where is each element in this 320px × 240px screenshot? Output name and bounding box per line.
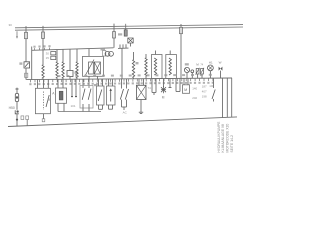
svg-text:M: M (184, 88, 187, 92)
svg-text:W: W (219, 60, 222, 64)
fuse F2 (42, 32, 45, 38)
label 100 (209, 84, 214, 88)
label A (52, 92, 55, 96)
wire drop c1 (56, 50, 58, 62)
wire B1-rail (191, 73, 193, 79)
snowflake (161, 86, 166, 93)
label S2 (48, 99, 50, 101)
wire S6 u (122, 100, 127, 111)
connector X4 (15, 110, 19, 114)
label W2 (219, 60, 222, 64)
switch S2 blade (46, 95, 49, 107)
svg-text:198: 198 (202, 95, 207, 99)
fuse F1 (25, 32, 28, 38)
plug X3 (128, 38, 133, 43)
label 407 (202, 90, 207, 94)
label M snow (162, 96, 165, 100)
ground R1 (139, 112, 143, 113)
wire K6-rail (133, 78, 135, 79)
switch box S2 (35, 88, 50, 113)
svg-text:407: 407 (202, 90, 207, 94)
svg-text:H1: H1 (209, 60, 213, 64)
fuse F5 (180, 27, 183, 33)
fuse F6 (15, 94, 18, 102)
switch S1 box (24, 62, 30, 68)
label M1 (101, 48, 106, 51)
wire snow (163, 79, 165, 88)
switch box S5 (107, 86, 116, 105)
sensor B1 (191, 70, 194, 73)
wire S3 t1 (82, 79, 84, 85)
svg-text:H50: H50 (9, 106, 15, 110)
label 187 (202, 85, 207, 89)
wire M2 t2 (187, 78, 189, 85)
wire A u (58, 103, 64, 111)
label K6 (136, 62, 139, 64)
wire c2-rail (62, 78, 64, 79)
motor M1 (103, 51, 114, 57)
wire E2-rail (209, 71, 211, 78)
stub T1 (169, 79, 172, 88)
wire drop long (121, 48, 123, 78)
wire bus30 line1 (15, 25, 243, 28)
wire drop c2 (62, 49, 64, 62)
wire R1 gnd (140, 100, 142, 113)
wire S5 u (109, 105, 113, 109)
fuse F3 (113, 32, 116, 38)
svg-text:SEITE 14-2: SEITE 14-2 (230, 135, 234, 153)
lamp E2 (208, 65, 214, 71)
svg-text:187: 187 (202, 85, 207, 89)
motor M2 box (183, 85, 190, 94)
svg-text:KLIMAANLAGE 98: KLIMAANLAGE 98 (221, 124, 225, 152)
wire S5 t2 (112, 79, 114, 86)
wire collector (58, 111, 101, 113)
label K4 (75, 72, 78, 74)
svg-text:101: 101 (71, 104, 76, 108)
switch S2 dashes (43, 92, 45, 111)
wire S2 t2 (43, 80, 45, 89)
wire S1-rail (25, 68, 27, 80)
label M2 (184, 88, 187, 92)
svg-text:30: 30 (9, 23, 13, 27)
wire U1 top (88, 49, 90, 57)
label 30 bus (9, 23, 13, 27)
wire S3 u (83, 104, 89, 112)
coil K7 (145, 58, 147, 76)
wire K7-rail (145, 76, 147, 79)
wire chain c (16, 114, 18, 126)
wire pair u2 (152, 79, 156, 95)
coil K5 (76, 62, 78, 78)
wire M2 t1 (183, 78, 185, 84)
wire K1-rail (42, 78, 44, 79)
wire ground bus (8, 117, 237, 127)
wire S4 t2 (102, 79, 104, 86)
coil K1 (42, 65, 44, 78)
wire rail (26, 78, 232, 80)
wire A t1 (57, 79, 59, 88)
wire S3 t2 (88, 79, 90, 85)
wire U2 top (155, 51, 157, 55)
wire pair u1 (71, 79, 77, 96)
wire B3-rail (201, 74, 203, 78)
pad S2 (42, 119, 45, 122)
lamp E1 (184, 67, 189, 72)
label E1 (185, 63, 189, 65)
label 140 (192, 87, 197, 91)
wire chain a (16, 91, 18, 94)
wire R1 t1 (138, 79, 140, 86)
wire S4 u (99, 105, 103, 109)
label M sensors (196, 63, 204, 67)
label 10 (94, 84, 98, 86)
label S1 (19, 62, 22, 64)
wire drop F1 (25, 26, 27, 62)
label 74 (148, 86, 152, 90)
solenoid A core (59, 91, 63, 100)
switch S5 arrow (110, 88, 112, 101)
wire stub X3 (130, 43, 132, 47)
junction dot (16, 119, 18, 121)
heater R1 box (137, 85, 147, 99)
wire drop F3 (113, 24, 115, 48)
label 240 (192, 96, 197, 100)
wire drop F5 (180, 24, 182, 78)
label W (209, 60, 213, 64)
wire drop F2 (42, 26, 44, 65)
wire E1-rail (186, 73, 188, 79)
wire R1 t2 (143, 79, 145, 86)
coil K6 (132, 60, 134, 78)
wire S5 t1 (108, 79, 110, 86)
ground lug G1a (21, 116, 24, 120)
svg-text:140: 140 (192, 87, 197, 91)
relay U1 coil (89, 62, 94, 74)
wire U1 b2 (97, 76, 99, 79)
wire B2-rail (197, 74, 199, 78)
switch S7 (212, 78, 215, 101)
wire topA (32, 48, 114, 51)
wire c1-rail (56, 78, 58, 79)
wire right v1 (222, 78, 224, 118)
relay U1 contact (94, 62, 100, 74)
wire chain b (16, 102, 18, 110)
wire H1-rail (220, 71, 222, 79)
wire left edge (31, 47, 33, 80)
wire c3-rail (69, 77, 71, 80)
node cross (15, 88, 18, 91)
label 198 (202, 95, 207, 99)
switch S3 blade1 (82, 86, 85, 100)
switch box S4 (97, 86, 105, 105)
rail upper labels (58, 74, 212, 77)
wire c4-rail (76, 78, 78, 79)
connector X2 ticks (118, 44, 129, 48)
label 101 (71, 104, 76, 108)
coil K3 (62, 62, 64, 78)
wire drop c4 (76, 49, 78, 62)
connector S1b (25, 73, 28, 77)
label X2 (118, 33, 122, 35)
wire A t2 (62, 79, 64, 88)
svg-text:M: M (162, 96, 165, 100)
relay terminals X1 (51, 52, 56, 60)
terminal arrow A1 (16, 31, 18, 39)
rail pin numbers (29, 82, 214, 86)
wire pair u3 (176, 78, 180, 91)
label 15 (46, 56, 50, 60)
label H50 (9, 106, 15, 110)
horn H1 (219, 67, 223, 71)
sensor B3 (200, 68, 204, 75)
wire S2 t3 (47, 79, 49, 88)
topA pin labels (33, 45, 50, 50)
svg-text:74: 74 (148, 86, 152, 90)
relay U3 box (166, 55, 177, 79)
wire lug (26, 120, 28, 126)
ground lug G1b (26, 116, 29, 120)
rail pin ticks (31, 78, 213, 82)
svg-text:HYDRAULIKPUMPE: HYDRAULIKPUMPE (217, 122, 221, 153)
switch S6b (125, 79, 128, 100)
coil K2 (56, 62, 58, 78)
coil K7 wire (145, 54, 147, 58)
relay U2 coil (154, 58, 156, 75)
contact box K4 (67, 71, 73, 77)
fuse F4 dark (124, 24, 127, 36)
relay U1 box (83, 56, 104, 76)
switch S4 blade (98, 90, 102, 102)
wire drop c3 (69, 49, 71, 70)
svg-text:15: 15 (46, 56, 50, 60)
wire S2 t1 (37, 80, 39, 89)
wire right v2 (226, 78, 228, 117)
sensor B2 (196, 68, 200, 75)
switch S3 blade2 (88, 86, 91, 100)
solenoid A box (56, 88, 67, 103)
wire S4 t1 (98, 79, 100, 86)
relay U2 box (152, 55, 163, 79)
wire bus30 line2 (15, 27, 243, 30)
wire U3 top (169, 51, 171, 55)
wire S2 bottom (43, 114, 45, 119)
legend text block (217, 122, 234, 153)
svg-text:240: 240 (192, 96, 197, 100)
svg-text:30: 30 (46, 51, 50, 55)
relay U3 coil (169, 58, 171, 75)
relay U1 arrow (86, 60, 95, 76)
switch box S3 (80, 86, 93, 109)
wire right edge (231, 78, 233, 117)
wire U1 b1 (88, 76, 90, 79)
label 30 (46, 51, 50, 55)
wire K6 top (133, 52, 135, 60)
switch S6a (120, 79, 123, 100)
label AC (123, 110, 128, 114)
